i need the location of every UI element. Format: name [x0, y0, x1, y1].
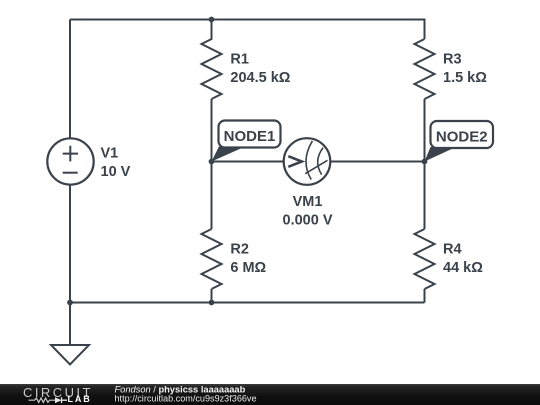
svg-text:http://circuitlab.com/cu9s9z3f: http://circuitlab.com/cu9s9z3f366ve	[115, 393, 257, 403]
footer bar	[0, 384, 540, 405]
svg-text:LAB: LAB	[68, 394, 92, 404]
junction: bottom rail / ground	[67, 300, 73, 306]
CircuitLab logo diode	[55, 397, 62, 403]
NODE1 callout tail	[212, 146, 246, 161]
voltmeter VM1 body	[284, 138, 331, 185]
svg-text:0.000 V: 0.000 V	[283, 212, 333, 228]
voltmeter VM1 chevron	[288, 156, 302, 167]
svg-text:R4: R4	[443, 241, 462, 257]
wire: R2 bottom to bottom rail	[211, 289, 213, 303]
NODE1 callout box	[219, 121, 281, 148]
voltage source V1	[47, 138, 93, 184]
svg-text:10 V: 10 V	[101, 164, 131, 180]
junction: NODE2	[422, 159, 428, 165]
resistor R4	[415, 229, 435, 289]
junction: top rail / R1	[209, 17, 215, 23]
svg-text:204.5 kΩ: 204.5 kΩ	[230, 70, 290, 86]
wire: voltmeter right terminal to NODE2	[331, 161, 425, 163]
wire: R1 bottom to NODE1	[211, 99, 213, 162]
ground symbol	[69, 303, 71, 346]
junction: bottom rail / R2	[209, 300, 215, 306]
voltmeter VM1 dial arc outer	[306, 141, 312, 180]
svg-text:NODE1: NODE1	[224, 128, 276, 145]
resistor R3	[415, 39, 435, 99]
svg-text:R1: R1	[230, 51, 249, 67]
resistor R1	[202, 20, 222, 100]
wire: R3 bottom to NODE2	[424, 99, 426, 162]
wire: NODE1 down to R2	[211, 162, 213, 230]
wire: NODE2 down to R4	[424, 162, 426, 230]
V1 plus sign	[63, 146, 78, 162]
voltmeter VM1 dial arc inner	[318, 148, 323, 175]
wire: bottom rail	[70, 302, 425, 304]
wire: R4 bottom to bottom rail corner	[424, 289, 426, 303]
svg-text:NODE2: NODE2	[436, 129, 488, 146]
svg-text:44 kΩ: 44 kΩ	[443, 260, 483, 276]
V1 minus sign	[63, 172, 78, 174]
svg-text:6 MΩ: 6 MΩ	[230, 260, 266, 276]
svg-text:1.5 kΩ: 1.5 kΩ	[443, 70, 487, 86]
voltmeter VM1 needle	[305, 160, 327, 173]
wire: top rail from R1 junction to R3	[212, 20, 425, 40]
svg-text:R3: R3	[443, 51, 462, 67]
wire: V1 positive lead up the left side	[69, 20, 71, 139]
resistor R2	[202, 229, 222, 289]
svg-text:VM1: VM1	[293, 194, 323, 210]
svg-text:R2: R2	[230, 241, 249, 257]
NODE2 callout tail	[425, 147, 457, 162]
NODE2 callout box	[431, 121, 494, 148]
wire: V1 negative lead down to bottom rail	[69, 185, 71, 303]
svg-text:V1: V1	[101, 146, 119, 162]
CircuitLab logo resistor squiggle	[29, 398, 56, 402]
junction: NODE1	[209, 159, 215, 165]
wire: top rail from V1 to R1 junction	[70, 19, 212, 21]
wire: NODE1 to voltmeter left terminal	[212, 161, 284, 163]
